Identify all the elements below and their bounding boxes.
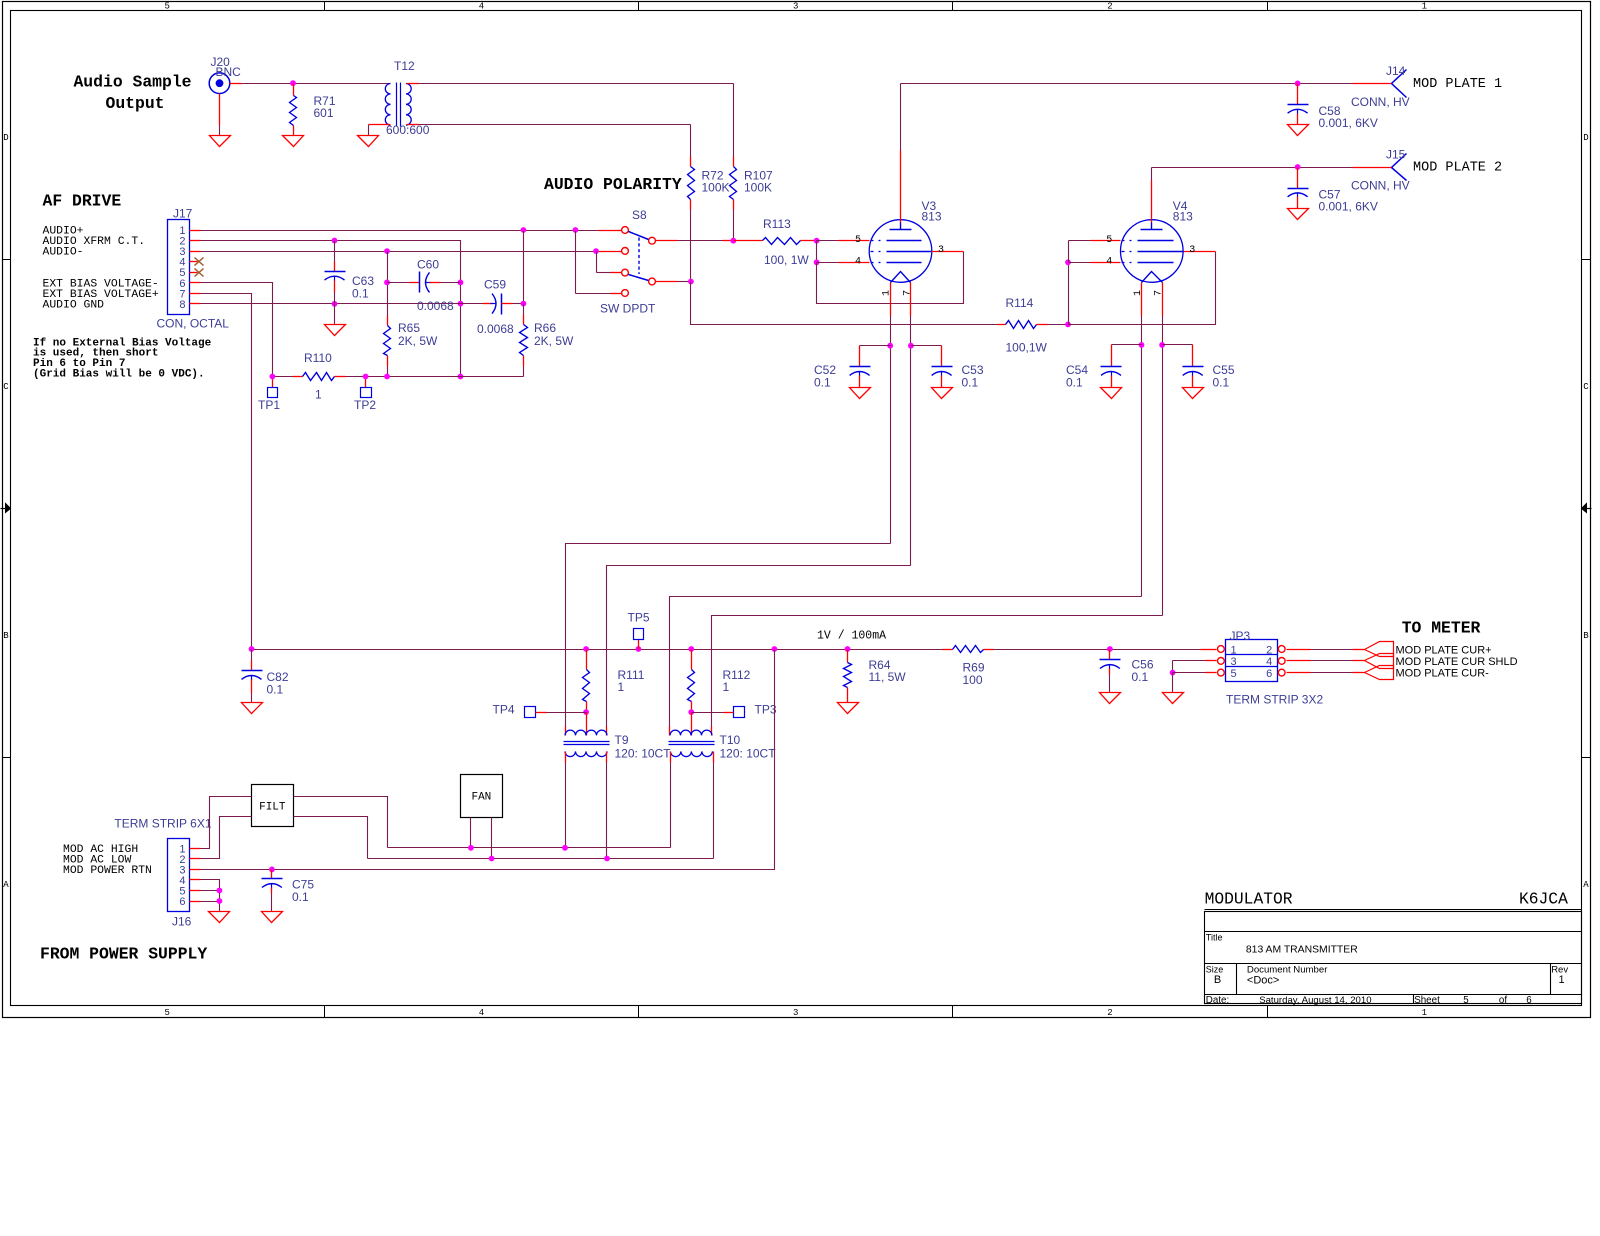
svg-text:TP4: TP4: [493, 703, 515, 717]
svg-text:TP2: TP2: [354, 398, 376, 412]
svg-text:TP3: TP3: [755, 703, 777, 717]
svg-text:5: 5: [1463, 995, 1469, 1006]
svg-text:R114: R114: [1006, 296, 1034, 310]
svg-text:0.1: 0.1: [267, 683, 284, 697]
svg-text:0.1: 0.1: [1213, 376, 1230, 390]
svg-text:R65: R65: [398, 321, 420, 335]
svg-text:MOD PLATE 1: MOD PLATE 1: [1413, 77, 1502, 92]
svg-text:FROM POWER SUPPLY: FROM POWER SUPPLY: [40, 945, 207, 964]
svg-text:2: 2: [1107, 2, 1112, 12]
svg-text:3: 3: [938, 245, 944, 256]
svg-text:3: 3: [793, 1008, 798, 1018]
svg-text:11, 5W: 11, 5W: [869, 670, 907, 684]
svg-text:TO METER: TO METER: [1402, 618, 1481, 637]
svg-text:C59: C59: [484, 278, 506, 292]
svg-text:4: 4: [1266, 656, 1272, 668]
svg-text:T12: T12: [394, 59, 415, 73]
svg-text:1: 1: [315, 388, 322, 402]
svg-text:1: 1: [618, 680, 625, 694]
svg-text:3: 3: [1231, 656, 1237, 668]
svg-text:120: 10CT: 120: 10CT: [615, 747, 672, 761]
svg-text:AF DRIVE: AF DRIVE: [43, 192, 122, 211]
svg-text:7: 7: [902, 290, 913, 296]
svg-text:CON, OCTAL: CON, OCTAL: [157, 317, 230, 331]
svg-text:2: 2: [1107, 1008, 1112, 1018]
svg-text:Audio Sample: Audio Sample: [73, 73, 191, 92]
svg-text:Date:: Date:: [1206, 995, 1229, 1006]
svg-text:Title: Title: [1206, 932, 1223, 942]
svg-text:5: 5: [855, 235, 861, 246]
svg-text:5: 5: [164, 1008, 169, 1018]
svg-text:813 AM TRANSMITTER: 813 AM TRANSMITTER: [1246, 944, 1358, 955]
svg-text:MOD PLATE CUR+: MOD PLATE CUR+: [1396, 644, 1492, 656]
svg-text:1: 1: [1422, 1008, 1427, 1018]
svg-text:3: 3: [793, 2, 798, 12]
svg-text:B: B: [1583, 631, 1589, 641]
svg-text:<Doc>: <Doc>: [1247, 974, 1279, 986]
svg-text:Output: Output: [105, 94, 164, 113]
svg-text:813: 813: [1173, 210, 1193, 224]
svg-text:(Grid Bias will be 0 VDC).: (Grid Bias will be 0 VDC).: [33, 368, 205, 380]
svg-text:D: D: [1583, 133, 1588, 143]
svg-text:6: 6: [179, 896, 185, 908]
svg-text:BNC: BNC: [216, 65, 242, 79]
svg-text:C: C: [3, 382, 9, 392]
svg-text:120: 10CT: 120: 10CT: [720, 747, 777, 761]
svg-text:S8: S8: [632, 208, 647, 222]
svg-text:FAN: FAN: [471, 792, 491, 804]
svg-text:4: 4: [855, 256, 861, 267]
svg-text:0.1: 0.1: [1132, 670, 1149, 684]
svg-text:0.1: 0.1: [292, 890, 309, 904]
svg-text:D: D: [3, 133, 8, 143]
svg-text:SW DPDT: SW DPDT: [600, 302, 656, 316]
svg-text:TERM STRIP 6X1: TERM STRIP 6X1: [114, 817, 211, 831]
svg-text:0.1: 0.1: [352, 287, 369, 301]
svg-text:MOD POWER RTN: MOD POWER RTN: [63, 865, 152, 877]
svg-text:100K: 100K: [702, 181, 730, 195]
svg-text:AUDIO-: AUDIO-: [43, 247, 84, 259]
svg-text:813: 813: [922, 210, 942, 224]
svg-text:1: 1: [1558, 974, 1564, 986]
svg-text:0.0068: 0.0068: [417, 299, 454, 313]
svg-text:CONN, HV: CONN, HV: [1351, 95, 1410, 109]
svg-text:A: A: [1583, 880, 1589, 890]
svg-text:2: 2: [1266, 644, 1272, 656]
svg-text:C60: C60: [417, 258, 439, 272]
svg-text:J14: J14: [1386, 64, 1406, 78]
svg-text:C: C: [1583, 382, 1589, 392]
svg-text:R66: R66: [534, 321, 556, 335]
svg-text:0.0068: 0.0068: [477, 322, 514, 336]
svg-text:0.1: 0.1: [962, 376, 979, 390]
svg-text:CONN, HV: CONN, HV: [1351, 179, 1410, 193]
svg-text:J16: J16: [172, 915, 192, 929]
svg-text:4: 4: [479, 2, 484, 12]
svg-text:3: 3: [1189, 245, 1195, 256]
svg-text:of: of: [1499, 995, 1507, 1006]
svg-text:MOD PLATE 2: MOD PLATE 2: [1413, 161, 1502, 176]
svg-text:6: 6: [1266, 668, 1272, 680]
svg-text:FILT: FILT: [259, 802, 286, 814]
svg-text:AUDIO POLARITY: AUDIO POLARITY: [544, 175, 682, 194]
svg-text:MODULATOR: MODULATOR: [1205, 890, 1293, 909]
svg-text:1V / 100mA: 1V / 100mA: [817, 630, 886, 643]
svg-text:A: A: [3, 880, 9, 890]
svg-text:AUDIO GND: AUDIO GND: [43, 299, 105, 311]
svg-text:0.001, 6KV: 0.001, 6KV: [1319, 200, 1378, 214]
svg-text:B: B: [3, 631, 9, 641]
svg-text:K6JCA: K6JCA: [1519, 890, 1568, 909]
svg-text:R110: R110: [304, 351, 332, 365]
svg-text:MOD PLATE CUR SHLD: MOD PLATE CUR SHLD: [1396, 656, 1518, 668]
svg-text:8: 8: [179, 299, 185, 311]
svg-text:100,1W: 100,1W: [1006, 341, 1048, 355]
svg-text:100K: 100K: [744, 181, 772, 195]
svg-text:T9: T9: [615, 733, 629, 747]
svg-text:TERM STRIP 3X2: TERM STRIP 3X2: [1226, 693, 1323, 707]
svg-text:0.1: 0.1: [814, 376, 831, 390]
svg-text:J15: J15: [1386, 148, 1406, 162]
svg-text:1: 1: [723, 680, 730, 694]
svg-text:Sheet: Sheet: [1414, 995, 1440, 1006]
svg-text:4: 4: [1106, 256, 1112, 267]
svg-text:4: 4: [479, 1008, 484, 1018]
svg-text:JP3: JP3: [1230, 629, 1251, 643]
svg-text:1: 1: [1422, 2, 1427, 12]
svg-text:5: 5: [1106, 235, 1112, 246]
svg-text:TP1: TP1: [258, 398, 280, 412]
svg-text:1: 1: [1133, 290, 1144, 296]
svg-text:6: 6: [1526, 995, 1532, 1006]
svg-text:1: 1: [1231, 644, 1237, 656]
svg-text:T10: T10: [720, 733, 741, 747]
svg-text:J17: J17: [173, 207, 193, 221]
svg-text:601: 601: [314, 106, 334, 120]
svg-text:R113: R113: [763, 217, 791, 231]
svg-text:100, 1W: 100, 1W: [764, 253, 809, 267]
svg-text:TP5: TP5: [628, 611, 650, 625]
svg-text:2K, 5W: 2K, 5W: [398, 334, 438, 348]
svg-text:0.1: 0.1: [1066, 376, 1083, 390]
svg-text:Saturday, August 14, 2010: Saturday, August 14, 2010: [1259, 995, 1371, 1006]
svg-text:MOD PLATE CUR-: MOD PLATE CUR-: [1396, 668, 1490, 680]
svg-text:5: 5: [1231, 668, 1237, 680]
svg-text:2K, 5W: 2K, 5W: [534, 334, 574, 348]
svg-text:0.001, 6KV: 0.001, 6KV: [1319, 116, 1378, 130]
svg-text:5: 5: [164, 2, 169, 12]
svg-text:100: 100: [963, 673, 983, 687]
svg-text:B: B: [1214, 974, 1221, 986]
